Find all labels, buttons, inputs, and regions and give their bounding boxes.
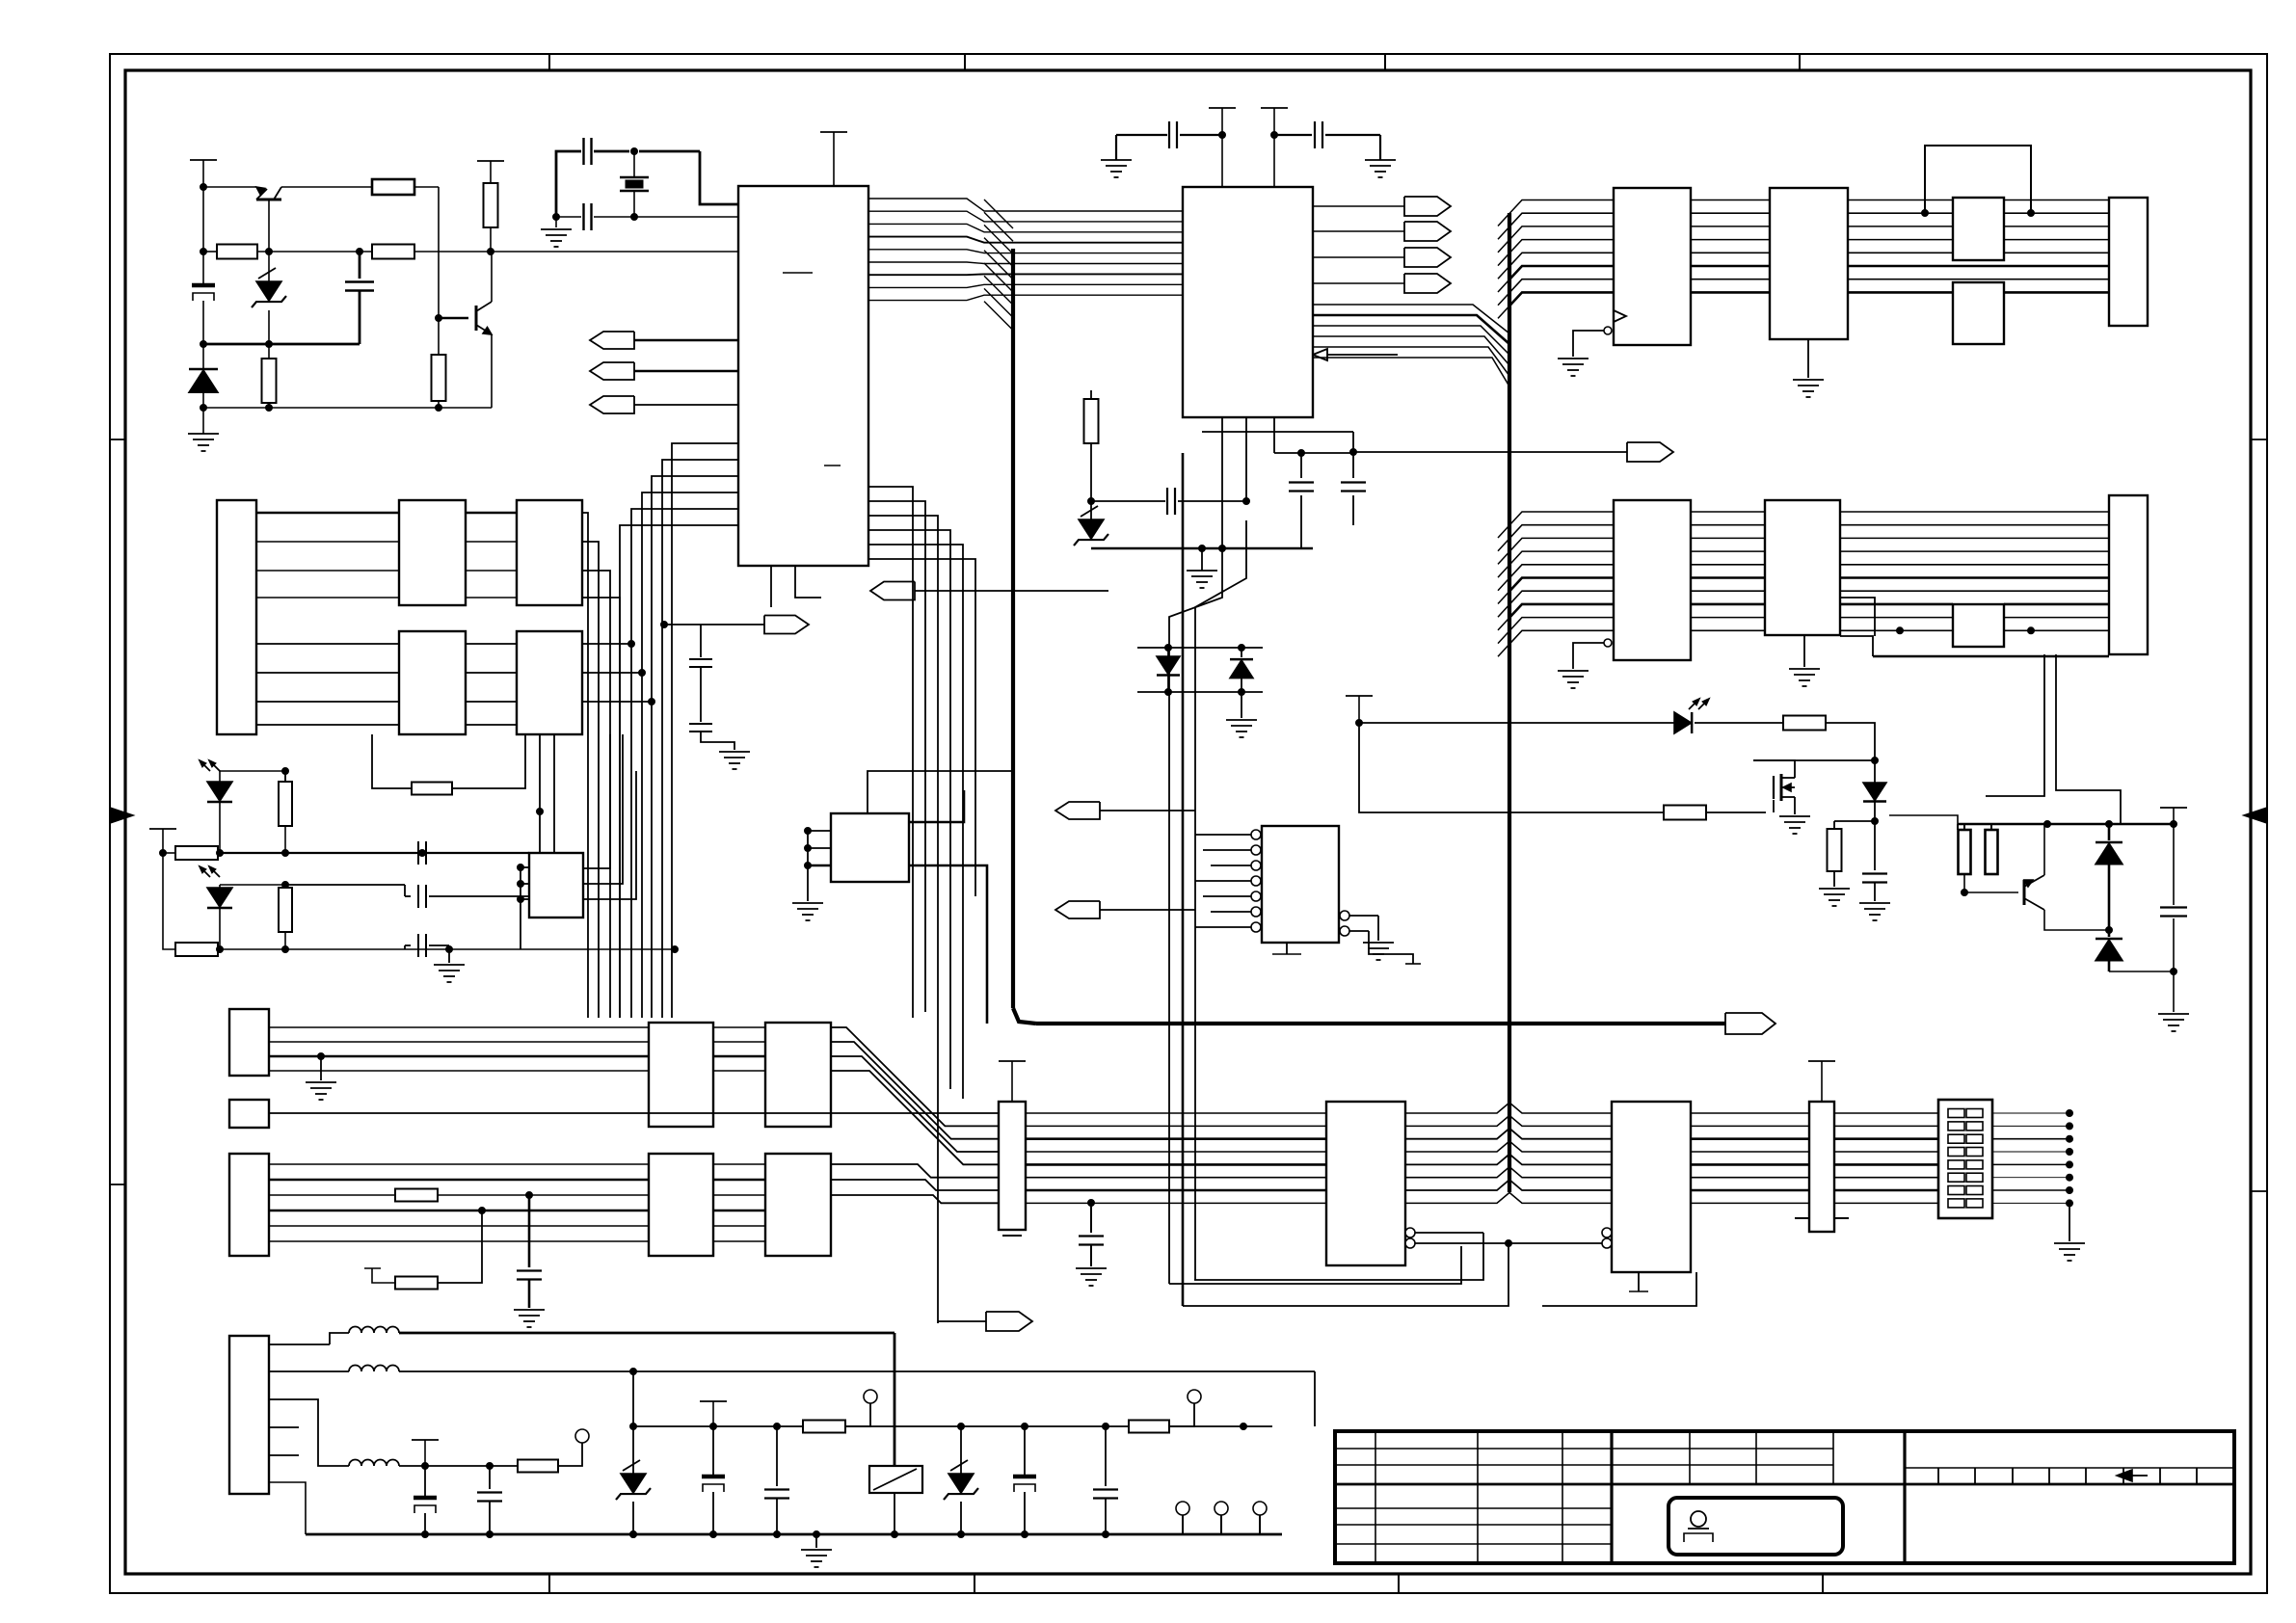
power symbol VCC5	[149, 829, 176, 853]
capacitor C7	[1859, 821, 1890, 920]
row2 down wires	[1986, 654, 2121, 824]
wire crystal low	[556, 216, 738, 218]
terminals T4 T5 T6	[1176, 1502, 1267, 1534]
thick wire y357	[203, 343, 360, 346]
flag net F	[986, 1312, 1032, 1331]
wire led row	[1356, 720, 1675, 727]
resistor network RN2	[1795, 1061, 1849, 1232]
ic U15	[517, 500, 582, 605]
wire R10 to mosfet	[1706, 758, 1879, 813]
zener D3	[1074, 506, 1108, 548]
resistor network RN1	[999, 1061, 1026, 1236]
u6 bottom stub	[1272, 943, 1301, 954]
transistor Q1	[256, 187, 281, 252]
u24 input bubbles	[1602, 1228, 1612, 1248]
ic U22	[765, 1154, 831, 1256]
u1 lower left wires	[620, 443, 738, 1018]
capacitor C12	[514, 1192, 545, 1328]
wire zener riser	[632, 1371, 634, 1426]
wire u2 bottom pins	[1222, 417, 1274, 548]
resistor R21	[803, 1421, 845, 1433]
wire loop over U9	[1922, 146, 2035, 217]
title block arrow	[2117, 1470, 2148, 1481]
wire J2b	[269, 1112, 999, 1114]
ic U14	[399, 500, 466, 605]
u12 ground	[1789, 635, 1820, 686]
power symbol VCC4	[2160, 808, 2187, 824]
connector J3	[229, 1154, 269, 1256]
resistor R9	[1783, 716, 1826, 731]
bus SW1 common	[1992, 1110, 2073, 1207]
title block stamp box	[1669, 1498, 1843, 1555]
u1 inner dash	[824, 465, 841, 466]
capacitor C17	[764, 1426, 789, 1538]
diode D5	[1230, 648, 1253, 692]
wire gate row	[1359, 723, 1664, 812]
inductor L1	[269, 1327, 511, 1344]
mosfet Q3	[1753, 760, 1810, 834]
resistor R19	[364, 1208, 486, 1290]
resistor R10	[1664, 806, 1706, 820]
u5 top wire	[868, 771, 1013, 813]
u15 wires right	[582, 513, 620, 1018]
bottom rail y423	[203, 407, 492, 409]
dip switch SW1	[1938, 1100, 1992, 1218]
resistor R12	[1958, 824, 1971, 874]
power symbol VD2	[700, 1401, 727, 1426]
wire y569 thick	[1091, 545, 1313, 552]
flag net A	[590, 332, 738, 349]
ic U17	[517, 631, 582, 734]
u8 ground	[1793, 339, 1824, 397]
resistor R6	[484, 183, 498, 252]
block verticals	[537, 734, 555, 853]
resistor R4	[372, 245, 414, 259]
u12 wires right	[1840, 598, 1875, 636]
power symbol VD1	[412, 1440, 439, 1470]
ic U11	[1614, 500, 1691, 660]
u11 reset bubble	[1558, 639, 1612, 688]
frame right centre arrow	[2244, 808, 2267, 823]
polarized cap C18	[1013, 1426, 1036, 1538]
ic U18	[529, 853, 583, 918]
ground diode pair	[1226, 692, 1257, 737]
ic U8	[1770, 188, 1848, 339]
inductor L2	[269, 1366, 1315, 1375]
resistor R22	[1129, 1421, 1169, 1433]
u18 right wires	[583, 734, 636, 899]
node crystal dots	[553, 148, 638, 221]
ic U24	[1612, 1102, 1691, 1272]
bus J1-U16-U17	[256, 644, 517, 725]
junction dots y423	[200, 405, 442, 412]
resistor R20	[518, 1460, 558, 1473]
resistor R13	[1986, 824, 1998, 874]
capacitor C8	[2160, 824, 2187, 971]
wire J4 low pins	[269, 1427, 306, 1534]
node base Q2	[436, 315, 442, 322]
u1 bottom stubs	[771, 566, 821, 607]
bus RN1-U23	[1026, 1113, 1326, 1203]
resistor R1	[217, 245, 257, 259]
wire Q2 base drop	[438, 252, 440, 354]
caps right of U2	[1274, 450, 1366, 549]
flag net G	[1202, 432, 1673, 462]
frame right ticks	[2251, 439, 2267, 1191]
frame left centre arrow	[110, 808, 133, 823]
title block table	[1335, 1431, 2234, 1563]
resistor R17	[160, 850, 219, 957]
bus U1 to U2 wires	[868, 199, 1183, 301]
bus2 fan row1	[1498, 200, 1614, 319]
corridor caps	[689, 625, 750, 769]
resistor R16	[220, 882, 292, 950]
bus merge chevrons	[984, 200, 1013, 331]
ic U2	[1183, 187, 1313, 417]
diode D8	[2096, 824, 2122, 934]
row2 thick line	[1840, 636, 2109, 656]
battery B1	[192, 187, 215, 344]
flag net D	[1055, 802, 1195, 819]
wire base Q1	[203, 186, 256, 188]
power symbol VCC2	[477, 161, 504, 183]
polarized cap C16	[702, 1426, 725, 1538]
ground crystal	[541, 217, 572, 247]
u2 decoupling cap left	[1101, 121, 1226, 177]
led D11	[200, 866, 232, 949]
connector J2b	[229, 1100, 269, 1128]
u24 bottom stub	[1629, 1272, 1648, 1291]
junction dots y357	[200, 341, 273, 348]
wire L2 down	[1314, 1371, 1316, 1426]
u6 input bubbles	[1195, 830, 1261, 932]
bus J1-U14-U15	[256, 513, 517, 598]
ic U10	[1953, 282, 2004, 344]
bus U8-J5	[1848, 200, 2109, 293]
connector J6	[2109, 495, 2148, 654]
ground u2 cluster	[1187, 548, 1217, 588]
u5 ground	[792, 865, 823, 920]
ic U21	[649, 1154, 713, 1256]
wire led1 top	[220, 768, 289, 783]
crystal circuit top wire	[556, 151, 738, 217]
ground right cluster	[2158, 971, 2189, 1031]
wire row3	[217, 946, 679, 953]
wire rail y261	[203, 251, 738, 253]
wire led to R9	[1695, 722, 1784, 724]
resistor R5	[262, 344, 277, 408]
wire r18	[394, 1194, 396, 1196]
u1 nc pin dash	[783, 272, 813, 274]
terminal T2	[845, 1390, 877, 1426]
terminal T3	[1169, 1390, 1201, 1426]
zener D12	[616, 1426, 651, 1538]
wire y855 right cluster	[1958, 821, 2177, 828]
flag net H	[661, 616, 810, 634]
ground sensor	[434, 965, 465, 982]
bus U11-U12	[1691, 512, 1765, 630]
power U1 top	[820, 132, 847, 186]
u1 lower right wires	[868, 487, 975, 1323]
bus J3-U21	[269, 1164, 765, 1241]
connector J5	[2109, 198, 2148, 326]
capacitor C9	[418, 841, 426, 865]
u7 reset bubble	[1558, 327, 1612, 376]
wire u23-u24 link	[1194, 1233, 1602, 1280]
ic U19	[649, 1023, 713, 1127]
capacitor C3	[584, 203, 592, 230]
frame top zone ticks	[549, 54, 1800, 70]
flag net B	[590, 362, 738, 380]
diode D4	[1157, 648, 1180, 692]
bottom power rail	[306, 1531, 1282, 1538]
power U2 stubs	[1209, 108, 1288, 187]
diode D7	[1863, 760, 1886, 825]
connector J1	[217, 500, 256, 734]
resistor R8	[1084, 390, 1099, 520]
u17 wires right	[582, 641, 655, 705]
relay K1	[869, 1333, 922, 1538]
wire R9 right	[1826, 723, 1875, 760]
bus U12-J6	[1840, 512, 2109, 630]
ground SW1	[2054, 1203, 2085, 1261]
inductor L3	[269, 1399, 518, 1466]
bus thick vertical x1566	[1508, 213, 1511, 1192]
capacitor C15	[477, 1463, 502, 1538]
wire cluster top link	[1889, 815, 1958, 824]
u2 to bus2 wires	[1313, 305, 1509, 386]
capacitor C1	[345, 252, 374, 344]
bus thick vertical x1051	[1013, 249, 1036, 1024]
crystal X1	[620, 151, 649, 217]
wire upper rail	[630, 1423, 1273, 1430]
resistor R11	[1819, 829, 1850, 906]
ic U1	[738, 186, 868, 566]
wire L1 thick	[511, 1332, 894, 1335]
resistor R7	[432, 355, 446, 408]
connector J2	[229, 1009, 269, 1076]
transistor Q2	[439, 252, 492, 408]
diode D9	[2096, 930, 2177, 975]
ic U20	[765, 1023, 831, 1127]
bus RN2-SW1	[1834, 1113, 1938, 1203]
u17 resistor link	[372, 734, 525, 795]
wire rbottom	[1962, 874, 2019, 896]
ic U16	[399, 631, 466, 734]
ic U9	[1953, 198, 2004, 260]
ic U12	[1765, 500, 1840, 635]
bus J2-U19	[269, 1027, 765, 1071]
power symbol VCC1	[190, 160, 217, 187]
capacitor C19	[1093, 1426, 1118, 1538]
terminal T1	[558, 1429, 589, 1466]
wire diode bottom	[1834, 821, 1875, 829]
resistor R18	[395, 1189, 438, 1202]
ic U7	[1614, 188, 1691, 345]
ic U23	[1326, 1102, 1405, 1265]
wire diode pair bottom	[1137, 689, 1263, 696]
junction dots rail y261	[200, 249, 494, 255]
resistor R15	[163, 846, 220, 860]
resistor R2	[372, 179, 414, 195]
resistor R14	[279, 771, 292, 853]
u6 output bubbles	[1340, 911, 1378, 936]
u6 output wires	[1363, 916, 1421, 964]
bus U20 right	[831, 1027, 999, 1164]
diode D1	[189, 344, 218, 408]
wire cap row	[1091, 488, 1250, 515]
polarized cap C14	[414, 1466, 437, 1534]
u7 clock wedge	[1614, 310, 1626, 322]
ground bottom rail	[801, 1531, 832, 1568]
corridor verticals center	[1169, 453, 1246, 1306]
u2 decoupling cap right	[1271, 121, 1397, 177]
transistor Q4	[2024, 824, 2109, 930]
frame bottom zone ticks	[549, 1574, 1823, 1593]
stamp person icon	[1684, 1511, 1713, 1542]
capacitor C11	[405, 934, 449, 963]
bus U24-RN2	[1691, 1113, 1809, 1203]
zener D2	[252, 252, 286, 344]
wire diode pair top	[1137, 645, 1263, 652]
flag net C	[590, 396, 738, 413]
wire flag F	[938, 1320, 986, 1322]
wire row2mid	[285, 884, 405, 886]
connector J4	[229, 1336, 269, 1494]
u13 taps	[1897, 627, 2035, 634]
ic U5	[831, 813, 909, 882]
node A1 junction	[200, 184, 207, 191]
flag bus right	[1725, 1013, 1775, 1034]
frame left ticks	[110, 439, 125, 1184]
power symbol VCC3	[1346, 696, 1373, 723]
zener D13	[944, 1426, 978, 1538]
wire R2 to node	[414, 187, 439, 252]
wire Q1 emitter to R2	[281, 186, 373, 188]
ic U13	[1953, 604, 2004, 647]
u23 output bubbles	[1405, 1228, 1415, 1248]
ground J2 wire	[306, 1053, 336, 1101]
bus U7-U8	[1691, 200, 1770, 293]
wire corridor loops	[1169, 1243, 1696, 1306]
u2 output flags	[1313, 197, 1451, 293]
u18 pins	[518, 865, 530, 950]
bus U22 right	[831, 1164, 999, 1203]
capacitor C13	[1076, 1200, 1107, 1287]
bus thick horizontal y1062	[1036, 1022, 1725, 1025]
wire row1	[217, 850, 530, 857]
capacitor C2	[584, 138, 592, 165]
u5 right wires	[909, 790, 987, 1024]
bus U23 to bus2 merge	[1405, 1103, 1612, 1203]
u2 arrow in	[1313, 349, 1398, 360]
led D6	[1674, 699, 1709, 733]
bus2 fan row2	[1498, 512, 1614, 656]
capacitor C10	[405, 885, 529, 908]
flag net E	[1055, 901, 1195, 918]
ground GND1	[188, 408, 219, 451]
u5 left pins	[805, 828, 832, 869]
led D10	[200, 760, 232, 853]
flag net I	[870, 582, 1108, 600]
ic U6	[1262, 826, 1339, 943]
node R8	[1088, 498, 1095, 505]
